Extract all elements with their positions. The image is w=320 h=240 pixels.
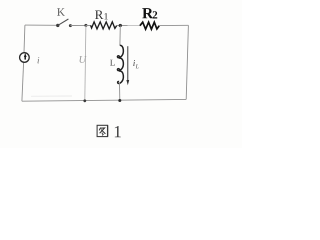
wire R1 to R2 through node xyxy=(116,25,140,27)
label R1 xyxy=(95,10,103,19)
current source arrow (up) xyxy=(24,56,26,60)
label R2 xyxy=(142,8,153,18)
wire from switch to node U xyxy=(70,24,86,26)
label K xyxy=(57,8,65,15)
left vertical wire (lower part) xyxy=(22,63,24,102)
faint artifact line bottom-left xyxy=(31,95,72,97)
caption character 图 xyxy=(97,125,108,136)
switch left contact xyxy=(56,24,59,27)
right vertical wire xyxy=(186,25,188,99)
wire node to inductor top xyxy=(119,26,121,46)
wire from node to R1 xyxy=(86,24,91,26)
wire top from left corner to switch xyxy=(25,24,58,26)
inductor L coil xyxy=(117,45,123,83)
label iL xyxy=(133,60,135,66)
node at top of U branch xyxy=(84,24,87,27)
wire inductor bottom to bottom wire xyxy=(119,83,121,101)
label L xyxy=(110,60,115,66)
switch right contact xyxy=(69,24,72,27)
left vertical wire (upper part) xyxy=(23,25,26,52)
switch blade xyxy=(58,19,69,25)
caption numeral 1 xyxy=(115,126,121,137)
node at bottom of U branch xyxy=(83,99,86,102)
current source circle xyxy=(20,53,30,63)
resistor R1 xyxy=(91,22,117,29)
label i (source) xyxy=(38,57,40,63)
iL arrow (down) xyxy=(127,46,129,80)
bottom wire xyxy=(22,99,186,101)
U branch vertical wire xyxy=(85,25,86,101)
resistor R2 xyxy=(140,22,159,29)
node at top of L branch xyxy=(119,24,122,27)
wire R2 to top-right corner xyxy=(159,24,188,26)
switch K xyxy=(56,19,72,27)
node at bottom of L branch xyxy=(118,99,121,102)
label U xyxy=(80,56,87,63)
